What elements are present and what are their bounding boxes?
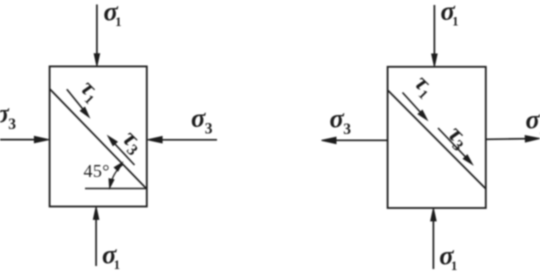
svg-text:τ1: τ1 — [74, 75, 106, 107]
svg-text:σ1: σ1 — [104, 0, 122, 29]
svg-text:45°: 45° — [84, 161, 110, 181]
svg-text:σ3: σ3 — [526, 104, 540, 139]
svg-text:σ3: σ3 — [0, 98, 16, 133]
svg-text:σ1: σ1 — [441, 0, 459, 29]
svg-text:σ3: σ3 — [191, 103, 213, 138]
svg-text:τ3: τ3 — [115, 125, 149, 159]
svg-text:σ1: σ1 — [439, 240, 457, 272]
svg-text:σ3: σ3 — [330, 103, 352, 138]
svg-text:σ1: σ1 — [102, 239, 120, 272]
svg-text:τ1: τ1 — [408, 70, 440, 102]
